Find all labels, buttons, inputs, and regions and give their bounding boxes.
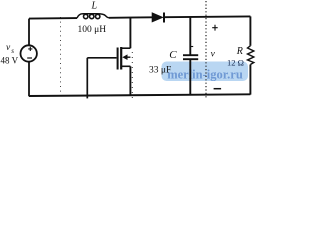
capacitor polarity tick xyxy=(191,46,193,48)
svg-text:merlin-igor.ru: merlin-igor.ru xyxy=(167,67,243,81)
inductor loop 3 xyxy=(96,14,100,18)
wire diode to corner xyxy=(165,15,250,18)
drain horizontal xyxy=(121,47,130,49)
svg-text:s: s xyxy=(11,47,14,55)
dotted line x=132 xyxy=(131,52,133,98)
minus sign xyxy=(27,57,32,59)
source bottom lead xyxy=(28,62,30,97)
output plus xyxy=(212,25,218,31)
capacitor C bottom plate xyxy=(183,58,198,60)
resistor R top lead xyxy=(249,16,251,45)
capacitor bottom lead xyxy=(189,59,191,95)
source top lead xyxy=(28,19,30,46)
resistor R zigzag xyxy=(248,46,254,65)
inductor loop 1 xyxy=(84,14,88,18)
svg-text:33 μF: 33 μF xyxy=(149,66,171,76)
bottom wire xyxy=(29,94,250,96)
inductor L1 coil xyxy=(77,14,109,18)
plus sign xyxy=(28,47,32,51)
body arrow head xyxy=(122,54,127,60)
diode D1 xyxy=(152,13,163,22)
capacitor top lead xyxy=(189,17,191,55)
svg-text:C: C xyxy=(169,49,177,61)
MOSFET Q1 drain vertical xyxy=(129,17,131,48)
svg-text:R: R xyxy=(236,46,243,57)
channel bar xyxy=(120,47,122,70)
diode cathode bar xyxy=(163,13,165,23)
MOSFET source vertical xyxy=(129,66,131,96)
output minus xyxy=(214,88,222,90)
body arrow line xyxy=(127,56,131,58)
voltage source Vs xyxy=(21,45,37,61)
dotted line x=206 xyxy=(205,1,207,99)
top wire xyxy=(29,17,77,20)
gate lead xyxy=(87,57,116,59)
gate bar xyxy=(117,48,119,70)
wire inductor to diode xyxy=(109,16,152,19)
dotted line x=60 xyxy=(60,17,62,99)
svg-text:12 Ω: 12 Ω xyxy=(227,57,244,67)
watermark box xyxy=(162,62,249,82)
svg-text:48 V: 48 V xyxy=(1,56,19,66)
svg-text:L: L xyxy=(91,0,98,11)
capacitor C top plate xyxy=(183,54,198,56)
resistor bottom lead xyxy=(249,65,251,95)
svg-text:100 μH: 100 μH xyxy=(78,25,107,35)
gate return wire xyxy=(86,58,88,99)
inductor loop 2 xyxy=(90,14,94,18)
source horizontal xyxy=(121,65,130,67)
